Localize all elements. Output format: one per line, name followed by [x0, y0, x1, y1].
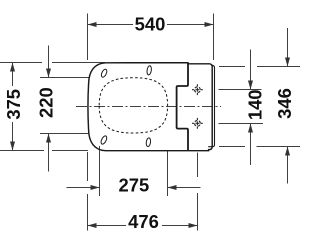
bumper top-left	[100, 68, 108, 78]
bumper bottom-right	[146, 138, 151, 147]
dim 375 arrow down	[10, 142, 15, 151]
svg-text:540: 540	[135, 13, 166, 34]
dim 275 extension right	[167, 151, 169, 196]
dim 346 bottom boundary line	[219, 146, 300, 148]
dim 140 bottom boundary line	[219, 123, 264, 125]
dim 140 bottom segment	[250, 124, 252, 166]
dim 220 top boundary line	[40, 77, 90, 79]
svg-text:375: 375	[3, 89, 24, 120]
dim 140 arrow down	[248, 81, 253, 90]
hinge notch contour	[177, 63, 188, 150]
seat lid outline	[88, 63, 212, 151]
dim 375 arrow up	[10, 63, 15, 72]
dim 346 arrow down	[285, 58, 290, 67]
dim 375 bottom boundary line	[0, 150, 88, 152]
dim 275 arrow-line right	[168, 187, 201, 189]
dim 346 arrow up	[285, 147, 290, 156]
svg-text:140: 140	[244, 89, 265, 120]
centerline	[76, 106, 221, 108]
dim 220 top segment	[48, 46, 50, 78]
dim 346 top boundary line	[219, 66, 300, 68]
dim 346 top segment	[287, 28, 289, 67]
dim 476 line	[88, 225, 198, 227]
mounting hole bottom crosshair	[192, 118, 203, 129]
bumper top-right	[146, 65, 151, 75]
dim 220 arrow up	[46, 134, 51, 143]
dim 346 bottom segment	[287, 147, 289, 184]
dim 540 arrow right	[205, 22, 214, 27]
svg-text:476: 476	[128, 211, 159, 232]
dim 476 extension right	[197, 153, 199, 231]
dim 140 top boundary line	[219, 89, 262, 91]
dim 220 bottom segment	[48, 134, 50, 172]
dim 540 extension right	[213, 14, 215, 61]
dim 375 line	[12, 63, 14, 151]
dim 540 extension left	[87, 14, 89, 61]
dim 476 arrow left	[88, 223, 97, 228]
dim 275 extension left	[99, 146, 101, 196]
svg-text:220: 220	[35, 87, 56, 118]
seat opening dashed oval	[99, 78, 167, 133]
mounting hole top crosshair	[192, 84, 203, 95]
dim 220 arrow down	[46, 69, 51, 78]
bumper bottom-left	[100, 135, 108, 145]
dim 140 top segment	[250, 50, 252, 90]
dim 540 arrow left	[88, 22, 97, 27]
dim 275 arrow-line left	[67, 187, 100, 189]
mounting plate right edge	[208, 65, 214, 147]
dim 476 arrow right	[189, 223, 198, 228]
dim 275 arrow left-pointing-right	[91, 185, 100, 190]
dim 275 arrow right-pointing-left	[168, 185, 177, 190]
dim 476 extension left	[87, 152, 89, 231]
svg-text:275: 275	[119, 175, 150, 196]
dim 540 line	[88, 24, 214, 26]
svg-text:346: 346	[274, 88, 295, 119]
dim 140 arrow up	[248, 124, 253, 133]
dim 375 top boundary line	[0, 62, 105, 64]
dim 220 bottom boundary line	[40, 133, 89, 135]
